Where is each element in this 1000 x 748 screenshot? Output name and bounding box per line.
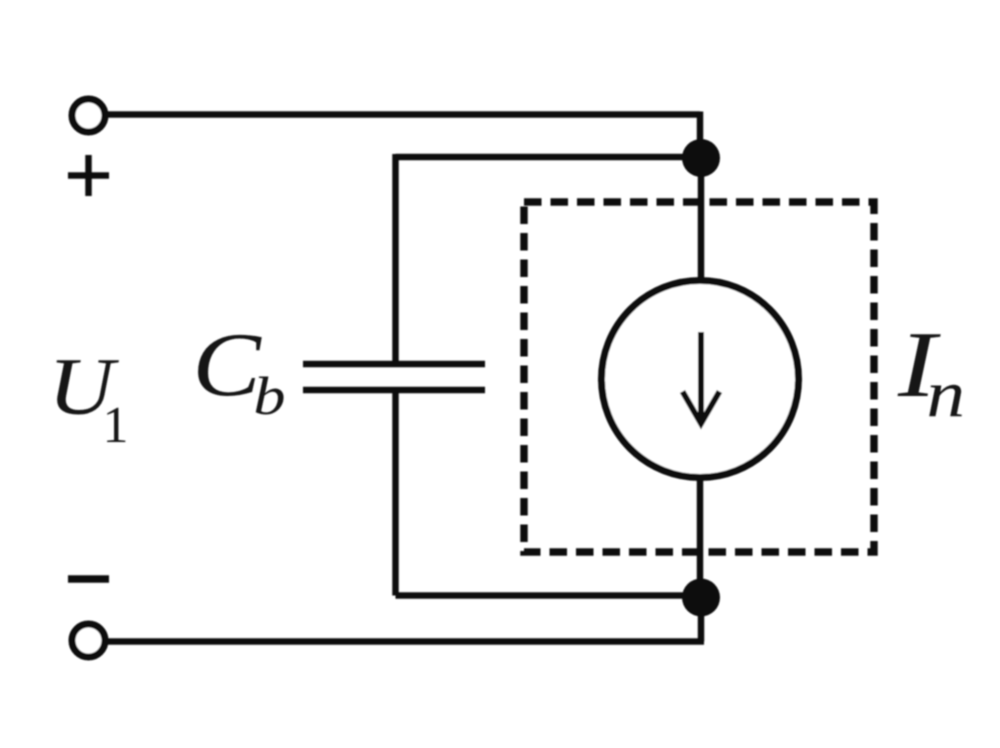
arrow shaft inside current source	[698, 332, 704, 420]
node B (bottom junction dot)	[682, 579, 720, 617]
wire capacitor bottom vertical	[392, 390, 399, 596]
terminal T1 (top-left open circle)	[72, 99, 105, 132]
label In	[897, 313, 942, 417]
capacitor Cb top plate	[303, 361, 485, 368]
wire node B down to bottom corner	[698, 597, 705, 642]
svg-text:b: b	[253, 366, 285, 426]
svg-text:n: n	[927, 357, 966, 431]
capacitor Cb bottom plate	[303, 387, 485, 394]
wire capacitor top horizontal to node A	[396, 154, 702, 161]
node A (top junction dot)	[682, 139, 720, 177]
wire top corner vertical down to node A	[697, 112, 704, 159]
wire top horizontal from T1 to corner	[106, 111, 701, 118]
label Cb	[192, 314, 262, 414]
wire current source bottom to node B	[697, 478, 704, 598]
label U1	[48, 341, 120, 432]
wire capacitor top vertical	[392, 154, 399, 364]
terminal T2 (bottom-left open circle)	[72, 624, 105, 657]
dashed box around current source	[524, 202, 874, 552]
current source U circle	[602, 281, 799, 478]
svg-text:C: C	[192, 314, 262, 414]
arrow head chevron	[683, 392, 720, 424]
minus sign (-) polarity mark	[68, 575, 109, 583]
wire bottom horizontal to terminal T2	[106, 638, 705, 645]
svg-text:1: 1	[103, 397, 129, 454]
plus sign (+) polarity mark	[68, 155, 109, 196]
wire capacitor bottom horizontal to node B	[396, 592, 702, 599]
wire node A down to current source	[698, 158, 705, 281]
